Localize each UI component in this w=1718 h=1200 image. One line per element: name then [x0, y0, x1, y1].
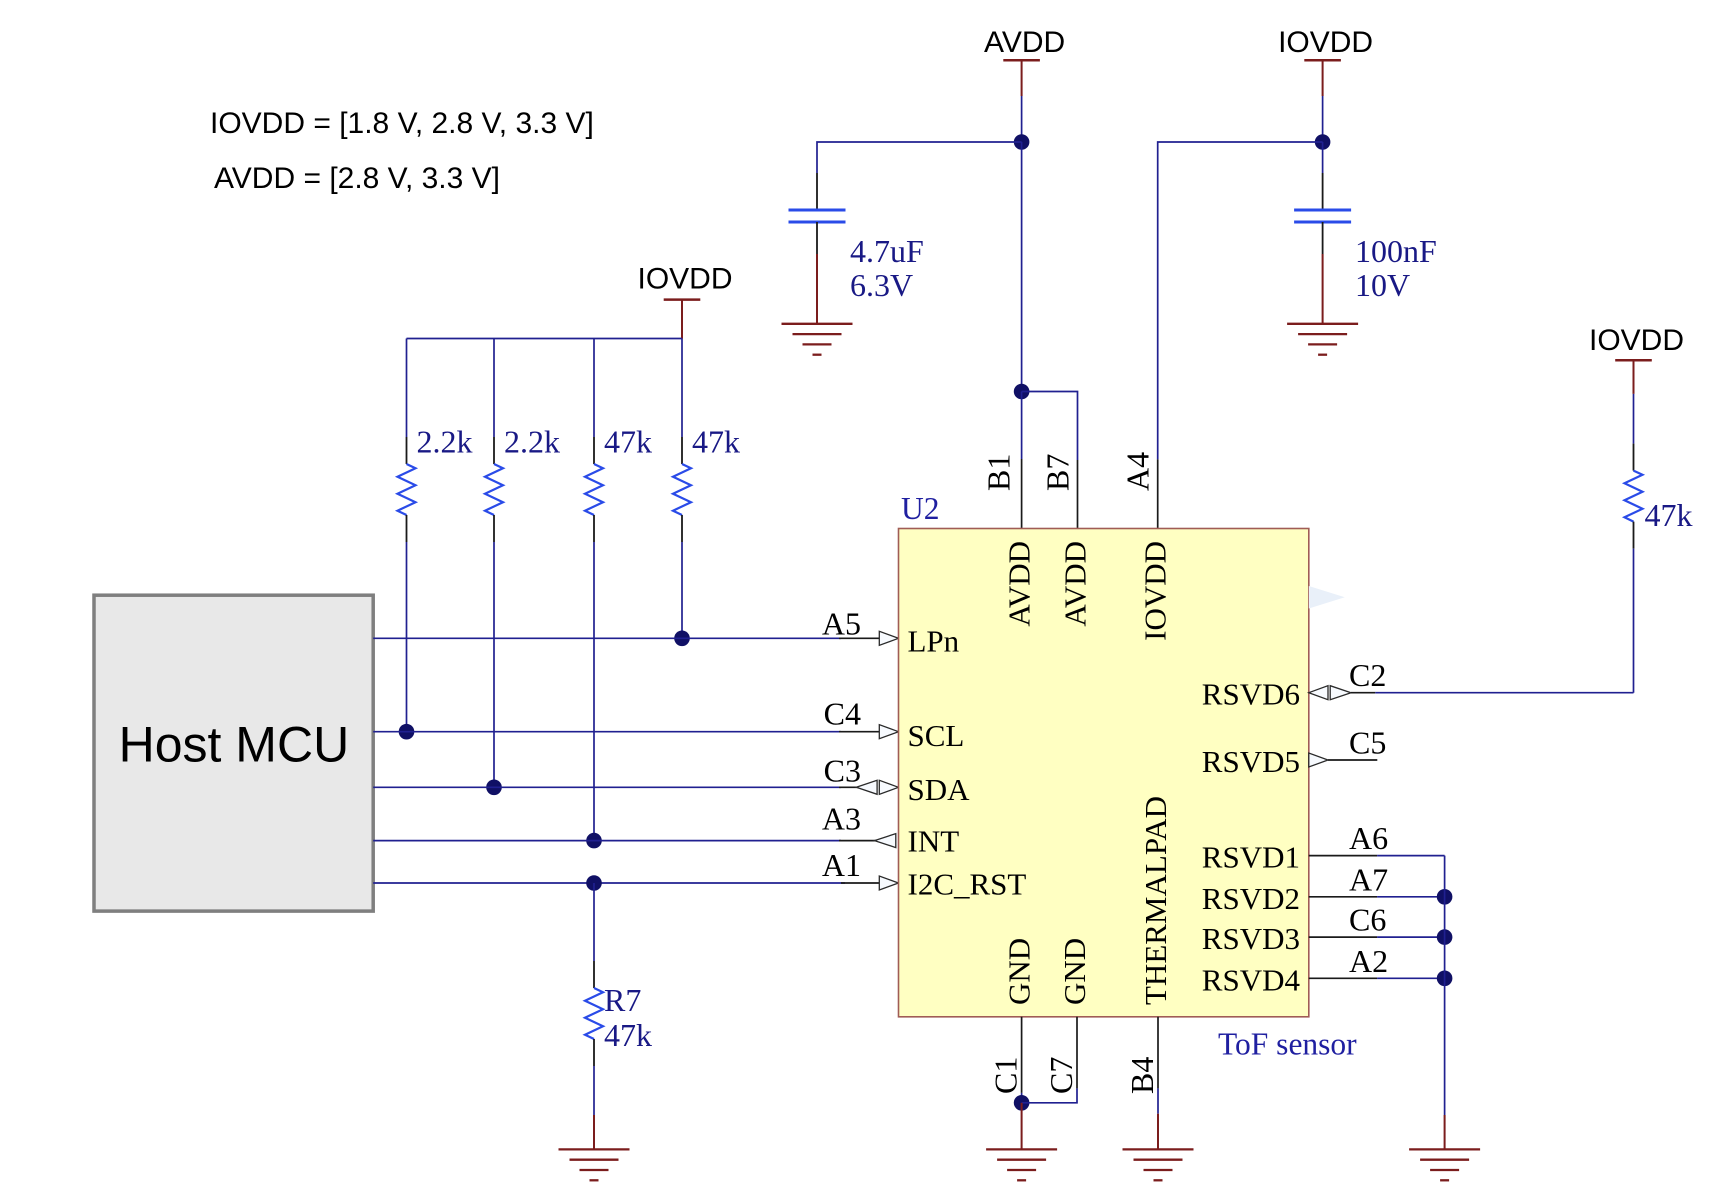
wire IOVDD rail stub [681, 300, 683, 339]
pin B1 AVDD [1021, 459, 1023, 529]
pin C1 GND [1021, 1017, 1023, 1093]
svg-text:C7: C7 [1043, 1057, 1079, 1094]
capacitor 100nF bypass [1294, 173, 1351, 254]
svg-text:AVDD: AVDD [1058, 541, 1093, 627]
svg-text:AVDD: AVDD [984, 26, 1065, 59]
junction RSVD3 [1437, 929, 1453, 945]
svg-text:IOVDD: IOVDD [1138, 541, 1173, 641]
resistor R7 47k [585, 961, 603, 1066]
svg-text:GND: GND [1002, 938, 1037, 1005]
IC Host MCU [94, 595, 373, 911]
svg-text:A6: A6 [1349, 820, 1388, 856]
pin LPn input arrow [879, 631, 898, 645]
svg-text:A4: A4 [1120, 452, 1156, 491]
junction RSVD2 [1437, 889, 1453, 905]
pin RSVD1 stub [1309, 855, 1377, 857]
junction at R (SCL pull-up) net [399, 724, 415, 740]
wire RSVD1 to bus [1377, 855, 1445, 857]
svg-text:ToF sensor: ToF sensor [1218, 1027, 1357, 1062]
svg-text:B7: B7 [1040, 454, 1076, 491]
svg-text:SCL: SCL [908, 718, 965, 753]
wire bus to resistor R (INT pull-up) [593, 339, 595, 438]
pin RSVD5 stub [1328, 759, 1377, 761]
svg-text:INT: INT [908, 823, 960, 858]
pin LPn stub [839, 637, 880, 639]
svg-text:Host MCU: Host MCU [119, 717, 350, 773]
svg-text:RSVD6: RSVD6 [1202, 677, 1300, 712]
junction at R (SDA pull-up) net [486, 780, 502, 796]
capacitor 4.7uF bypass [789, 173, 846, 254]
pin SDA bidirectional arrow [856, 780, 877, 794]
resistor R (SCL pull-up) 2.2k [398, 437, 416, 542]
svg-text:100nF: 100nF [1355, 233, 1437, 269]
junction C1/C7 [1014, 1095, 1030, 1111]
pin SDA stub [839, 786, 858, 788]
pin B4 THERMALPAD [1157, 1017, 1159, 1089]
wire net C2 [1375, 692, 1633, 694]
pin A4 IOVDD [1157, 459, 1159, 528]
svg-text:47k: 47k [692, 424, 740, 460]
svg-text:RSVD2: RSVD2 [1202, 881, 1300, 916]
svg-text:LPn: LPn [908, 624, 960, 659]
svg-text:I2C_RST: I2C_RST [908, 867, 1027, 902]
junction at R (INT pull-up) net [586, 833, 602, 849]
wire RSVD4 to bus [1377, 977, 1445, 979]
wire AVDD flag stub [1021, 60, 1023, 96]
svg-text:C3: C3 [824, 752, 861, 788]
wire pull-up bus [407, 338, 683, 340]
svg-text:RSVD3: RSVD3 [1202, 921, 1300, 956]
ground (B4) [1123, 1149, 1194, 1180]
pin RSVD2 stub [1309, 896, 1377, 898]
wire bus to resistor R (SDA pull-up) [493, 339, 495, 438]
svg-text:2.2k: 2.2k [504, 424, 560, 460]
svg-text:47k: 47k [1645, 497, 1693, 533]
wire resistor R (INT pull-up) down [593, 542, 595, 841]
wire resistor R (LPn pull-up) down [681, 542, 683, 638]
wire 47k to C2 net [1633, 549, 1635, 693]
pin RSVD6 bidirectional arrow [1330, 686, 1351, 700]
svg-text:C6: C6 [1349, 902, 1386, 938]
node IOVDD junction [1315, 134, 1331, 150]
IC U2 ToF sensor body [899, 529, 1309, 1017]
svg-text:IOVDD: IOVDD [1278, 26, 1373, 59]
pin C7 GND [1076, 1017, 1078, 1089]
svg-text:RSVD1: RSVD1 [1202, 840, 1300, 875]
pin I2C_RST input arrow [879, 876, 898, 890]
junction at R (LPn pull-up) net [674, 631, 690, 647]
wire R7 to ground [593, 1066, 595, 1115]
ground (C1/C7) [1021, 1103, 1023, 1150]
svg-text:GND: GND [1057, 938, 1092, 1005]
svg-text:RSVD5: RSVD5 [1202, 744, 1300, 779]
pin RSVD5 output arrow [1309, 753, 1328, 767]
pin RSVD6 stub [1351, 692, 1375, 694]
wire RSVD3 to bus [1377, 936, 1445, 938]
svg-text:A3: A3 [822, 801, 861, 837]
ground (RSVD bus) [1409, 1149, 1480, 1180]
svg-text:C5: C5 [1349, 725, 1386, 761]
svg-text:C1: C1 [988, 1057, 1024, 1094]
wire to pin B1 [1021, 392, 1023, 460]
node AVDD junction [1014, 134, 1030, 150]
svg-text:6.3V: 6.3V [850, 267, 913, 303]
svg-text:B4: B4 [1124, 1057, 1160, 1094]
junction RSVD4 [1437, 971, 1453, 987]
svg-text:IOVDD: IOVDD [1589, 324, 1684, 357]
svg-text:IOVDD = [1.8 V, 2.8 V, 3.3 V]: IOVDD = [1.8 V, 2.8 V, 3.3 V] [210, 107, 594, 140]
svg-text:U2: U2 [901, 491, 940, 526]
wire net A1/I2C_RST [373, 882, 845, 884]
svg-text:A1: A1 [822, 847, 861, 883]
junction I2C_RST/R7 [586, 875, 602, 891]
pin INT output arrow [875, 834, 896, 848]
wire C1 to ground [1021, 1093, 1023, 1103]
wire IOVDD to pin A4 [1158, 142, 1323, 459]
svg-text:A5: A5 [822, 605, 861, 641]
pin I2C_RST stub [841, 882, 880, 884]
wire resistor R (SCL pull-up) down [406, 542, 408, 732]
wire RSVD vertical bus [1444, 856, 1446, 1115]
svg-text:2.2k: 2.2k [417, 424, 473, 460]
svg-text:A2: A2 [1349, 943, 1388, 979]
wire resistor R (SDA pull-up) down [493, 542, 495, 787]
svg-text:RSVD4: RSVD4 [1202, 962, 1301, 997]
pin RSVD3 stub [1309, 936, 1377, 938]
svg-text:B1: B1 [981, 454, 1017, 491]
resistor R (INT pull-up) 47k [585, 437, 603, 542]
svg-text:SDA: SDA [908, 772, 971, 807]
wire bus to resistor R (SCL pull-up) [406, 339, 408, 438]
ground (AVDD cap) [816, 254, 818, 324]
wire RSVD2 to bus [1377, 896, 1445, 898]
node B1/B7 junction [1014, 384, 1030, 400]
svg-text:IOVDD: IOVDD [637, 262, 732, 295]
wire net C3/SDA [373, 786, 841, 788]
pin SCL input arrow [879, 725, 898, 739]
wire I2C_RST to R7 [593, 883, 595, 961]
pin RSVD4 stub [1309, 977, 1377, 979]
resistor 47k (C2 pull-up) [1625, 444, 1643, 549]
svg-text:47k: 47k [604, 1017, 652, 1053]
ghost pin artifact [1309, 586, 1345, 609]
pin B7 AVDD [1077, 460, 1079, 529]
svg-text:R7: R7 [604, 982, 641, 1018]
wire net A3/INT [373, 840, 841, 842]
wire IOVDD to bypass cap [1322, 142, 1324, 173]
wire branch to pin B7 [1022, 392, 1078, 461]
ground (R7) [559, 1149, 630, 1180]
svg-text:AVDD: AVDD [1002, 541, 1037, 627]
svg-text:C4: C4 [824, 696, 861, 732]
wire C7 to C1 [1022, 1088, 1077, 1102]
wire bus to resistor R (LPn pull-up) [681, 339, 683, 438]
pin INT stub [839, 840, 876, 842]
wire AVDD down to U2 [1021, 142, 1023, 392]
wire AVDD to bypass cap [817, 142, 1022, 173]
wire net A5/LPn [373, 637, 841, 639]
svg-text:47k: 47k [604, 424, 652, 460]
wire IOVDD right stub [1633, 360, 1635, 394]
svg-text:AVDD = [2.8 V, 3.3 V]: AVDD = [2.8 V, 3.3 V] [214, 162, 500, 195]
svg-text:THERMALPAD: THERMALPAD [1138, 796, 1173, 1005]
ground (IOVDD cap) [1322, 254, 1324, 324]
svg-text:A7: A7 [1349, 861, 1388, 897]
svg-text:C2: C2 [1349, 657, 1386, 693]
wire IOVDD flag stub [1322, 60, 1324, 96]
resistor R (SDA pull-up) 2.2k [485, 437, 503, 542]
pin SCL stub [839, 731, 880, 733]
wire net C4/SCL [373, 731, 841, 733]
svg-text:10V: 10V [1355, 267, 1410, 303]
svg-text:4.7uF: 4.7uF [850, 233, 924, 269]
wire B4 to ground [1157, 1088, 1159, 1113]
resistor R (LPn pull-up) 47k [673, 437, 691, 542]
